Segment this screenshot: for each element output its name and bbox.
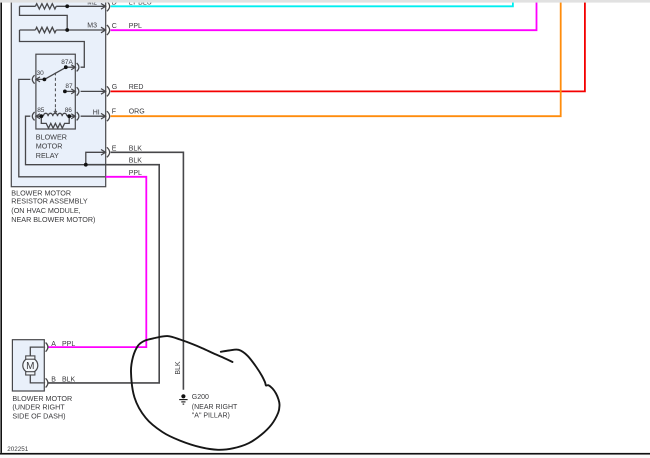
svg-text:(UNDER RIGHT: (UNDER RIGHT xyxy=(12,403,65,412)
svg-text:85: 85 xyxy=(37,107,45,114)
svg-text:RELAY: RELAY xyxy=(36,151,59,160)
svg-text:ORG: ORG xyxy=(129,109,145,116)
svg-text:86: 86 xyxy=(65,107,73,114)
svg-text:87A: 87A xyxy=(61,59,73,66)
svg-text:30: 30 xyxy=(37,70,45,77)
svg-text:PPL: PPL xyxy=(129,23,142,30)
svg-text:BLK: BLK xyxy=(62,377,76,384)
svg-text:F: F xyxy=(112,109,116,116)
svg-text:87: 87 xyxy=(65,83,73,90)
svg-text:E: E xyxy=(112,145,117,152)
svg-text:"A" PILLAR): "A" PILLAR) xyxy=(192,412,230,419)
svg-text:BLK: BLK xyxy=(175,361,182,375)
svg-text:(NEAR RIGHT: (NEAR RIGHT xyxy=(192,404,238,411)
svg-text:BLK: BLK xyxy=(129,145,143,152)
svg-text:A: A xyxy=(51,341,56,348)
svg-text:C: C xyxy=(112,23,117,30)
svg-text:MOTOR: MOTOR xyxy=(36,142,63,151)
svg-text:G200: G200 xyxy=(192,394,209,401)
svg-text:PPL: PPL xyxy=(129,170,142,177)
svg-text:PPL: PPL xyxy=(62,341,75,348)
svg-text:B: B xyxy=(51,377,56,384)
svg-text:G: G xyxy=(112,84,117,91)
svg-text:(ON HVAC MODULE,: (ON HVAC MODULE, xyxy=(11,206,80,215)
svg-text:RESISTOR ASSEMBLY: RESISTOR ASSEMBLY xyxy=(11,197,88,206)
svg-text:HI: HI xyxy=(93,110,100,117)
svg-text:BLK: BLK xyxy=(129,158,143,165)
svg-text:BLOWER MOTOR: BLOWER MOTOR xyxy=(12,394,72,403)
svg-text:202251: 202251 xyxy=(7,446,29,453)
svg-text:BLOWER: BLOWER xyxy=(36,133,67,142)
svg-text:M3: M3 xyxy=(87,22,97,29)
svg-text:SIDE OF DASH): SIDE OF DASH) xyxy=(12,412,65,421)
svg-text:RED: RED xyxy=(129,84,144,91)
svg-text:NEAR BLOWER MOTOR): NEAR BLOWER MOTOR) xyxy=(11,215,95,224)
svg-text:M: M xyxy=(26,361,34,372)
